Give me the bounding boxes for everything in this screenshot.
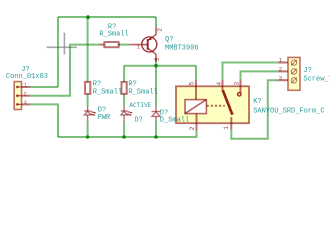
LED D1 value PWR: [98, 114, 111, 122]
wire node to diode D3: [155, 66, 157, 107]
connector J1 pin 1: [22, 86, 31, 88]
wire bottom ground rail: [58, 131, 197, 138]
wire column1 from top rail to R2: [87, 17, 89, 82]
svg-text:K?: K?: [253, 98, 261, 106]
svg-text:5: 5: [188, 82, 195, 86]
junction rail col1: [86, 135, 90, 139]
transistor Q1 reference Q?: [165, 36, 173, 44]
wire relay pin4 to terminal pin1: [223, 63, 279, 80]
wire collector net horizontal: [124, 65, 196, 67]
relay K1 SANYOU_SRD_Form_C body: [176, 86, 249, 123]
relay K1 pin number 4: [216, 82, 223, 86]
connector J1 pin number 2: [24, 91, 27, 97]
svg-text:3: 3: [154, 57, 161, 61]
resistor R2 reference R?: [93, 81, 101, 89]
svg-text:3: 3: [24, 100, 27, 106]
svg-text:J?: J?: [303, 67, 311, 75]
relay K1 pin number 3: [234, 82, 241, 86]
connector J1 pin number 3: [24, 100, 27, 106]
terminal J2 pin 1: [278, 62, 288, 64]
resistor R1 reference R?: [108, 24, 116, 32]
svg-text:R_Small: R_Small: [93, 88, 122, 96]
LED D2 reference D?: [134, 116, 142, 124]
svg-text:R?: R?: [128, 81, 136, 89]
relay K1 dashed actuator link: [206, 105, 225, 107]
relay K1 coil: [185, 100, 206, 114]
svg-text:3: 3: [234, 82, 241, 86]
svg-text:MMBT3906: MMBT3906: [165, 44, 199, 52]
wire connector pin2 jog to resistor R1: [30, 45, 99, 96]
svg-text:4: 4: [216, 82, 223, 86]
terminal J2 pin number 1: [279, 57, 283, 64]
wire emitter drop: [155, 17, 157, 27]
relay K1 reference K?: [253, 98, 261, 106]
svg-text:PWR: PWR: [98, 114, 111, 122]
wire R2 to LED D1: [87, 94, 89, 106]
connector J1 Conn_01x03 body: [14, 82, 21, 110]
transistor Q1 pin number 1: [137, 45, 140, 51]
svg-text:R_Small: R_Small: [99, 30, 128, 38]
wire column2 riser to R3: [123, 66, 125, 82]
resistor R1 (horizontal R_Small): [100, 42, 121, 47]
resistor R1 value R_Small: [99, 30, 128, 38]
transistor Q1 pin number 2: [156, 28, 163, 32]
junction collector node: [154, 64, 158, 68]
wire connector pin3 down to ground rail: [30, 104, 58, 137]
wire resistor R1 to base of Q1: [119, 44, 130, 46]
wire to relay pin5: [195, 66, 197, 80]
svg-text:ACTIVE: ACTIVE: [129, 102, 151, 109]
connector J1 reference J?: [21, 66, 29, 74]
relay K1 pin 5: [195, 80, 197, 100]
wire collector of Q1 to node: [155, 59, 157, 66]
wire relay pin3 to terminal pin2: [241, 71, 279, 79]
wire LED D2 to rail: [123, 121, 125, 137]
svg-text:Screw_Te: Screw_Te: [303, 76, 330, 84]
svg-text:1: 1: [137, 45, 140, 51]
connector J1 pin 2: [22, 95, 31, 97]
svg-text:R?: R?: [93, 81, 101, 89]
cursor crosshair: [47, 33, 77, 55]
relay K1 value SANYOU_SRD_Form_C: [253, 107, 324, 115]
relay K1 pin 1: [230, 117, 232, 130]
svg-text:2: 2: [156, 28, 163, 32]
transistor Q1 MMBT3906: [130, 27, 157, 62]
connector J1 pin number 1: [24, 83, 27, 89]
screw terminal J2 body: [288, 57, 300, 90]
resistor R2 (column1 vertical R_Small): [85, 82, 90, 94]
connector J1 pin 3: [22, 103, 31, 105]
transistor Q1 value MMBT3906: [165, 44, 199, 52]
terminal J2 pin number 2: [279, 65, 282, 72]
transistor Q1 pin number 3: [154, 57, 161, 61]
wire LED D1 to rail: [87, 121, 89, 137]
resistor R3 (column2 vertical R_Small): [122, 82, 127, 94]
wire diode D3 to rail: [155, 120, 157, 137]
relay K1 NC contact circle: [238, 93, 241, 96]
svg-text:1: 1: [223, 126, 230, 130]
relay K1 pin number 1: [223, 126, 230, 130]
svg-text:3: 3: [279, 74, 282, 81]
svg-text:2: 2: [189, 127, 196, 131]
wire R3 to LED D2: [123, 94, 125, 106]
junction top rail col1: [86, 15, 90, 19]
diode D3 D_Small: [152, 106, 161, 120]
terminal J2 pin 2: [278, 70, 288, 72]
terminal J2 reference J?: [303, 67, 311, 75]
svg-text:SANYOU_SRD_Form_C: SANYOU_SRD_Form_C: [253, 107, 324, 115]
relay K1 pin number 5: [188, 82, 195, 86]
resistor R3 value R_Small: [128, 88, 157, 96]
LED D1 PWR (column1): [84, 106, 96, 121]
svg-text:D_Small: D_Small: [160, 117, 189, 125]
relay K1 pin number 2: [189, 127, 196, 131]
svg-text:Conn_01x03: Conn_01x03: [6, 73, 48, 81]
svg-text:2: 2: [24, 91, 27, 97]
svg-text:Q?: Q?: [165, 36, 173, 44]
junction rail diode D3: [154, 135, 158, 139]
wire relay pin1 to terminal pin3: [231, 80, 278, 139]
diode D3 reference D?: [160, 109, 168, 117]
svg-text:2: 2: [279, 65, 282, 72]
relay K1 pin 2: [196, 114, 198, 131]
relay K1 pin 4: [222, 80, 224, 91]
LED D2 value ACTIVE: [129, 102, 151, 109]
relay K1 switch blade: [223, 90, 233, 115]
LED D1 reference D?: [98, 107, 106, 115]
svg-text:D?: D?: [134, 116, 142, 124]
terminal J2 pin 3: [278, 79, 288, 81]
terminal J2 value Screw_Terminal: [303, 76, 330, 84]
diode D3 value D_Small: [160, 117, 189, 125]
wire top rail: [58, 16, 156, 18]
junction rail col2: [122, 135, 126, 139]
wire connector pin1 to left riser: [30, 86, 58, 88]
svg-text:R_Small: R_Small: [128, 88, 157, 96]
svg-text:1: 1: [24, 83, 27, 89]
terminal J2 pin number 3: [279, 74, 282, 81]
resistor R3 reference R?: [128, 81, 136, 89]
LED D2 ACTIVE (column2): [121, 106, 133, 121]
connector J1 value Conn_01x03: [6, 73, 48, 81]
relay K1 pin 3: [240, 80, 242, 93]
resistor R2 value R_Small: [93, 88, 122, 96]
wire left riser up: [57, 17, 59, 87]
